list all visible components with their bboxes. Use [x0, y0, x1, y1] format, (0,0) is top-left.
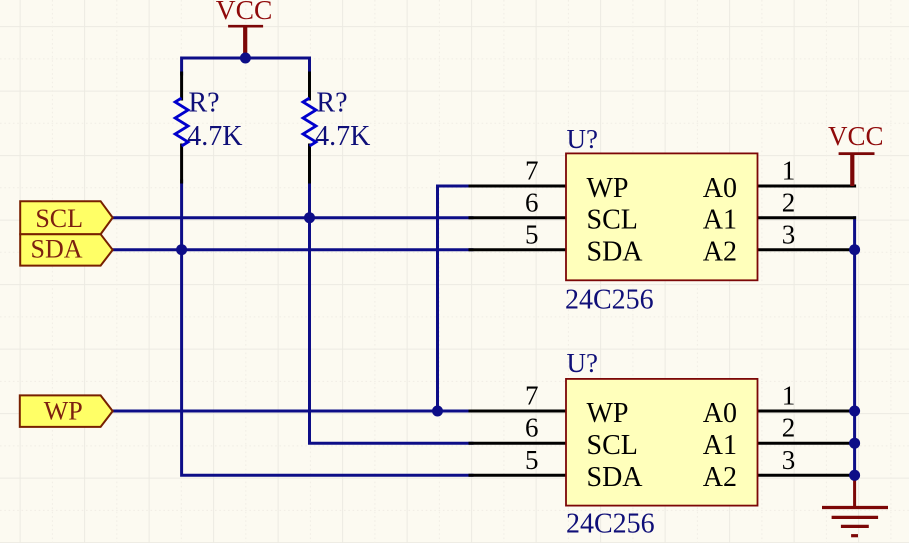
svg-text:A0: A0: [703, 398, 737, 429]
svg-text:SCL: SCL: [587, 205, 638, 236]
svg-text:SCL: SCL: [35, 204, 83, 233]
svg-text:7: 7: [525, 381, 539, 411]
svg-text:SDA: SDA: [587, 462, 644, 493]
svg-text:5: 5: [525, 219, 539, 249]
svg-text:3: 3: [782, 219, 796, 249]
svg-text:6: 6: [525, 413, 539, 443]
svg-text:3: 3: [782, 445, 796, 475]
svg-text:R?: R?: [189, 87, 220, 118]
svg-text:4.7K: 4.7K: [315, 121, 370, 152]
svg-text:2: 2: [782, 187, 796, 217]
svg-text:WP: WP: [587, 398, 629, 429]
svg-text:A0: A0: [703, 173, 737, 204]
svg-text:24C256: 24C256: [565, 285, 654, 316]
svg-text:A2: A2: [703, 462, 737, 493]
svg-text:4.7K: 4.7K: [187, 121, 242, 152]
svg-text:U?: U?: [567, 124, 598, 154]
svg-text:A1: A1: [703, 430, 737, 461]
svg-text:6: 6: [525, 187, 539, 217]
svg-text:1: 1: [782, 381, 796, 411]
svg-text:WP: WP: [44, 397, 83, 426]
svg-text:1: 1: [782, 156, 796, 186]
svg-text:VCC: VCC: [216, 0, 273, 25]
svg-text:SDA: SDA: [587, 237, 644, 268]
svg-text:A2: A2: [703, 237, 737, 268]
svg-text:SDA: SDA: [30, 234, 82, 263]
svg-text:U?: U?: [567, 348, 598, 378]
svg-text:A1: A1: [703, 205, 737, 236]
svg-text:7: 7: [525, 156, 539, 186]
svg-text:24C256: 24C256: [566, 509, 655, 540]
svg-text:5: 5: [525, 445, 539, 475]
svg-text:WP: WP: [587, 173, 629, 204]
svg-text:VCC: VCC: [828, 121, 884, 151]
svg-text:R?: R?: [316, 87, 347, 118]
svg-text:2: 2: [782, 413, 796, 443]
svg-text:SCL: SCL: [587, 430, 638, 461]
